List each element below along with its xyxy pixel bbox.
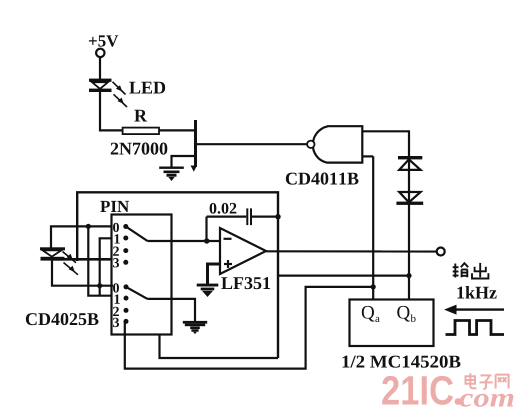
PIN box CD4025B (26, 201, 172, 335)
switch wiper (bottom group) (126, 287, 148, 299)
wire resistor to transistor gate (159, 129, 194, 131)
wire pin3 bottom group to Qa loop (125, 287, 373, 369)
pin 2 (top group) (113, 247, 128, 256)
watermark "zi" character (480, 375, 493, 389)
wire photodiode to pin3 (51, 258, 112, 261)
pin 3 (bottom group) (113, 318, 128, 327)
diode D2 (cathode down) (396, 192, 423, 205)
pin 0 (bottom group) (113, 283, 128, 292)
ground (bottom switch) (183, 321, 207, 334)
output label "shu" character (453, 263, 469, 277)
photodiode (40, 247, 78, 274)
output terminal (437, 248, 445, 256)
watermark "dian" character (466, 373, 477, 388)
photodiode branch wire (51, 226, 112, 248)
wire box bottom to feedback column (160, 335, 279, 359)
watermark com (459, 394, 513, 407)
wire drain to NAND input (197, 143, 307, 145)
wire NAND bottom to Qa column (362, 155, 373, 157)
watermark "wang" character (496, 375, 509, 389)
Qa column wire (372, 156, 374, 299)
wire pin1 to lower node (100, 238, 112, 295)
pin 1 (bottom group) (115, 294, 129, 303)
node Qb line (406, 273, 411, 278)
node pin0 line (86, 224, 91, 229)
node inverting input (204, 238, 209, 243)
pin 3 (top group) (113, 258, 128, 267)
node lower crossbar (97, 283, 102, 288)
+5V supply terminal (89, 35, 118, 57)
switch wiper (top group) (126, 227, 148, 242)
output label 1kHz (457, 286, 496, 298)
wire LED to resistor (100, 92, 123, 131)
wire photodiode stem to lower crossbar (52, 260, 113, 286)
wire NAND output to diode column (362, 130, 410, 132)
diode column wire (408, 131, 410, 299)
node Qa line (371, 284, 376, 289)
LED (89, 79, 165, 107)
wire inverting input (148, 240, 221, 242)
op-amp LF351 (220, 228, 270, 289)
ground (2N7000 source) (159, 167, 184, 182)
wire non-inverting input to ground (208, 264, 221, 284)
wire +5V to LED (99, 57, 101, 79)
transistor 2N7000 (111, 120, 197, 172)
clock input arrow (444, 305, 504, 315)
pin 2 (bottom group) (113, 307, 128, 316)
watermark 21IC (382, 376, 453, 405)
ground (op-amp + input) (197, 284, 219, 297)
wire pin0 junction down (88, 226, 110, 295)
watermark dot (455, 398, 462, 405)
node cap-feedback junction (275, 214, 280, 219)
clock square wave (446, 321, 505, 335)
output label "chu" character (472, 263, 488, 279)
counter MC14520B (343, 300, 461, 368)
wire bottom switch to ground (148, 299, 196, 321)
wire source to ground (172, 156, 195, 167)
diode D1 (cathode up) (398, 156, 422, 170)
feedback wire to inverting input (205, 217, 207, 241)
wire Qb line (278, 275, 409, 277)
op-amp output wire (266, 250, 437, 252)
capacitor 0.02 (207, 203, 279, 225)
resistor R (123, 110, 159, 134)
NAND gate CD4011B (286, 126, 362, 184)
pin 1 (top group) (115, 234, 129, 243)
top loop wire (77, 192, 278, 358)
pin 0 (top group) (113, 223, 128, 232)
